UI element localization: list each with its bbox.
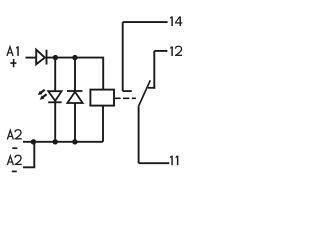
freewheel diode V2 cathode bar [67,90,83,92]
terminal label A1 [7,46,18,56]
diode D1 cathode bar [46,50,48,65]
dashed mechanical linkage [115,97,136,99]
freewheel diode V2 triangle [67,92,82,103]
wire coil bottom to rail [102,106,104,142]
wire LED branch upper [54,58,56,92]
wire terminal 14 horizontal [123,21,168,23]
contact 14 fixed foot [123,90,132,92]
LED emission arrow 1 [41,90,45,93]
node junction dot A2 riser [31,139,36,144]
minus sign under A2 lower [12,170,17,172]
plus sign under A1 [10,59,16,67]
wire bottom rail A2 [23,141,103,143]
node junction dot bottom rail LED branch [53,139,58,144]
terminal label 14 [170,16,182,26]
terminal label A2 lower [7,155,21,165]
node junction dot bottom rail diode branch [72,139,77,144]
LED emission arrow 2 [43,94,47,97]
wire A1 to diode D1 [26,57,37,59]
wire terminal 14 vertical [122,22,124,91]
wire common contact vertical [138,106,140,163]
LED V1 cathode bar [48,101,61,103]
wire top rail to coil [47,58,104,90]
relay coil K1 [90,90,114,106]
terminal label 12 [170,46,182,56]
diode D1 series diode [36,50,45,65]
movable contact lever [139,80,151,106]
node junction dot top rail LED branch [53,55,58,60]
wire terminal 12 horizontal [154,50,167,52]
contact 12 fixed bar [148,87,155,89]
wire freewheel diode branch lower [74,103,76,142]
wire A2 lower riser [23,142,34,168]
wire LED branch lower [54,101,56,142]
minus sign under A2 upper [12,147,17,149]
LED V1 triangle [48,91,61,101]
wire terminal 11 horizontal [139,162,170,164]
wire freewheel diode branch upper [74,58,76,91]
terminal label 11 [170,156,178,166]
terminal label A2 upper [7,130,21,140]
node junction dot top rail diode branch [72,55,77,60]
wire terminal 12 vertical [153,51,155,89]
